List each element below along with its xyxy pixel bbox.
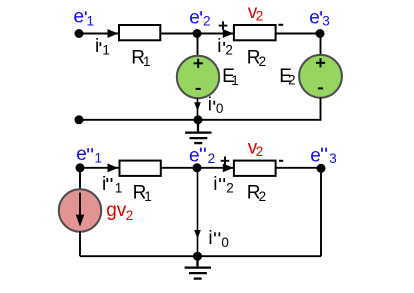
svg-text:i: i xyxy=(208,228,212,249)
svg-text:2: 2 xyxy=(203,14,211,29)
current arrow i'2 xyxy=(223,29,234,38)
svg-text:2: 2 xyxy=(259,189,267,204)
svg-text:2: 2 xyxy=(256,144,264,159)
label R2 (top) xyxy=(247,47,266,69)
svg-text:e: e xyxy=(310,145,321,166)
wire e''1 down to gv2 source xyxy=(79,168,81,190)
svg-text:1: 1 xyxy=(143,54,151,69)
node e'3 dot xyxy=(316,29,325,38)
svg-text:3: 3 xyxy=(322,14,330,29)
current arrow i''1 xyxy=(108,164,119,173)
node e'2 dot xyxy=(193,29,202,38)
wire R1 to R2 (bottom) xyxy=(161,167,234,169)
node label e'2 xyxy=(189,7,210,28)
minus sign inside E1 xyxy=(196,88,201,90)
arrowhead i''0 xyxy=(194,230,201,239)
node e''3 dot xyxy=(317,164,326,173)
svg-text:1: 1 xyxy=(87,13,95,28)
wire e''3 down to bottom wire xyxy=(320,168,322,256)
svg-text:2: 2 xyxy=(225,42,233,57)
svg-text:e: e xyxy=(309,7,320,28)
wire R2 to e''3 xyxy=(276,167,321,169)
svg-text:e: e xyxy=(189,145,200,166)
svg-text:3: 3 xyxy=(329,151,337,166)
current arrow i'1 xyxy=(108,29,119,38)
plus sign inside E1 xyxy=(194,59,203,68)
label R1 (top) xyxy=(131,47,150,69)
arrowhead i'0 xyxy=(194,102,201,111)
label i'0 xyxy=(208,95,224,117)
svg-text:1: 1 xyxy=(95,151,103,166)
label i''1 xyxy=(102,174,122,196)
wire E2 down to bottom wire xyxy=(320,97,322,120)
ground junction dot (bottom circuit) xyxy=(193,252,202,261)
plus sign inside E2 xyxy=(316,58,325,67)
node e''2 dot xyxy=(193,163,202,172)
voltage source E1 xyxy=(177,56,219,98)
node label e''3 xyxy=(310,145,337,166)
node label e''1 xyxy=(76,144,102,166)
svg-text:2: 2 xyxy=(288,73,296,88)
svg-text:e: e xyxy=(74,7,85,28)
label v2 (top, red) xyxy=(248,2,264,24)
svg-text:e: e xyxy=(189,7,200,28)
label E1 xyxy=(222,66,239,88)
label v2 (bottom, red) xyxy=(248,138,264,160)
wire R1 to R2 xyxy=(160,33,234,35)
label R1 (bottom) xyxy=(133,183,152,205)
svg-text:i: i xyxy=(217,36,221,57)
label i''0 xyxy=(208,228,229,250)
label i''2 xyxy=(213,174,234,196)
resistor R2 (bottom) xyxy=(234,161,276,176)
svg-text:1: 1 xyxy=(144,189,152,204)
svg-text:i: i xyxy=(208,95,212,116)
wire R2 to e'3 xyxy=(276,33,321,35)
svg-text:e: e xyxy=(76,144,87,165)
svg-text:1: 1 xyxy=(231,73,239,88)
polarity plus of v2 (bottom) xyxy=(221,157,230,166)
node label e'1 xyxy=(74,7,95,29)
current arrow i''2 xyxy=(223,164,234,173)
node label e'3 xyxy=(309,7,330,28)
svg-text:gv: gv xyxy=(106,200,127,221)
node label e''2 xyxy=(189,145,215,166)
bottom wire (bottom circuit) xyxy=(80,255,321,257)
voltage source E2 xyxy=(299,55,342,98)
wire e'3 down to E2 xyxy=(320,34,322,57)
polarity plus of v2 (top) xyxy=(219,21,228,30)
current source gv2 xyxy=(59,189,101,231)
svg-text:2: 2 xyxy=(208,151,216,166)
svg-text:0: 0 xyxy=(221,235,229,250)
wire E1 to ground junction with arrow i'0 xyxy=(197,98,199,120)
ground junction dot (top circuit) xyxy=(194,115,203,124)
wire e''1 to R1 xyxy=(80,167,120,169)
wire gv2 down to bottom wire xyxy=(79,231,81,256)
svg-text:0: 0 xyxy=(216,101,224,116)
node e''1 dot xyxy=(76,163,85,172)
ground symbol (bottom circuit) xyxy=(185,256,211,278)
svg-text:i: i xyxy=(213,174,217,195)
node e'1 dot xyxy=(75,29,84,38)
label i'2 xyxy=(217,36,233,58)
bottom-left open node dot (top circuit) xyxy=(75,115,84,124)
label i'1 xyxy=(95,36,110,58)
ground symbol (top circuit) xyxy=(185,120,211,143)
svg-text:1: 1 xyxy=(115,181,123,196)
svg-text:2: 2 xyxy=(126,208,134,223)
minus sign inside E2 xyxy=(318,87,323,89)
label gv2 (red) xyxy=(106,200,133,223)
svg-text:2: 2 xyxy=(259,54,267,69)
svg-text:2: 2 xyxy=(226,181,234,196)
svg-text:1: 1 xyxy=(102,42,110,57)
svg-text:2: 2 xyxy=(256,9,264,24)
polarity minus of v2 (bottom) xyxy=(279,160,283,162)
bottom wire (top circuit) xyxy=(79,119,321,121)
resistor R1 (bottom) xyxy=(120,161,161,176)
label E2 xyxy=(279,66,295,88)
resistor R2 (top) xyxy=(234,25,276,40)
arrow inside gv2 xyxy=(76,193,84,227)
wire e'2 down to E1 xyxy=(197,34,199,58)
svg-text:i: i xyxy=(95,36,99,57)
wire e''2 down to ground junction xyxy=(197,168,199,256)
polarity minus of v2 (top) xyxy=(278,24,283,26)
wire e'1 to R1 xyxy=(79,33,119,35)
label R2 (bottom) xyxy=(247,183,266,205)
svg-text:i: i xyxy=(102,174,106,195)
resistor R1 (top) xyxy=(119,25,160,40)
